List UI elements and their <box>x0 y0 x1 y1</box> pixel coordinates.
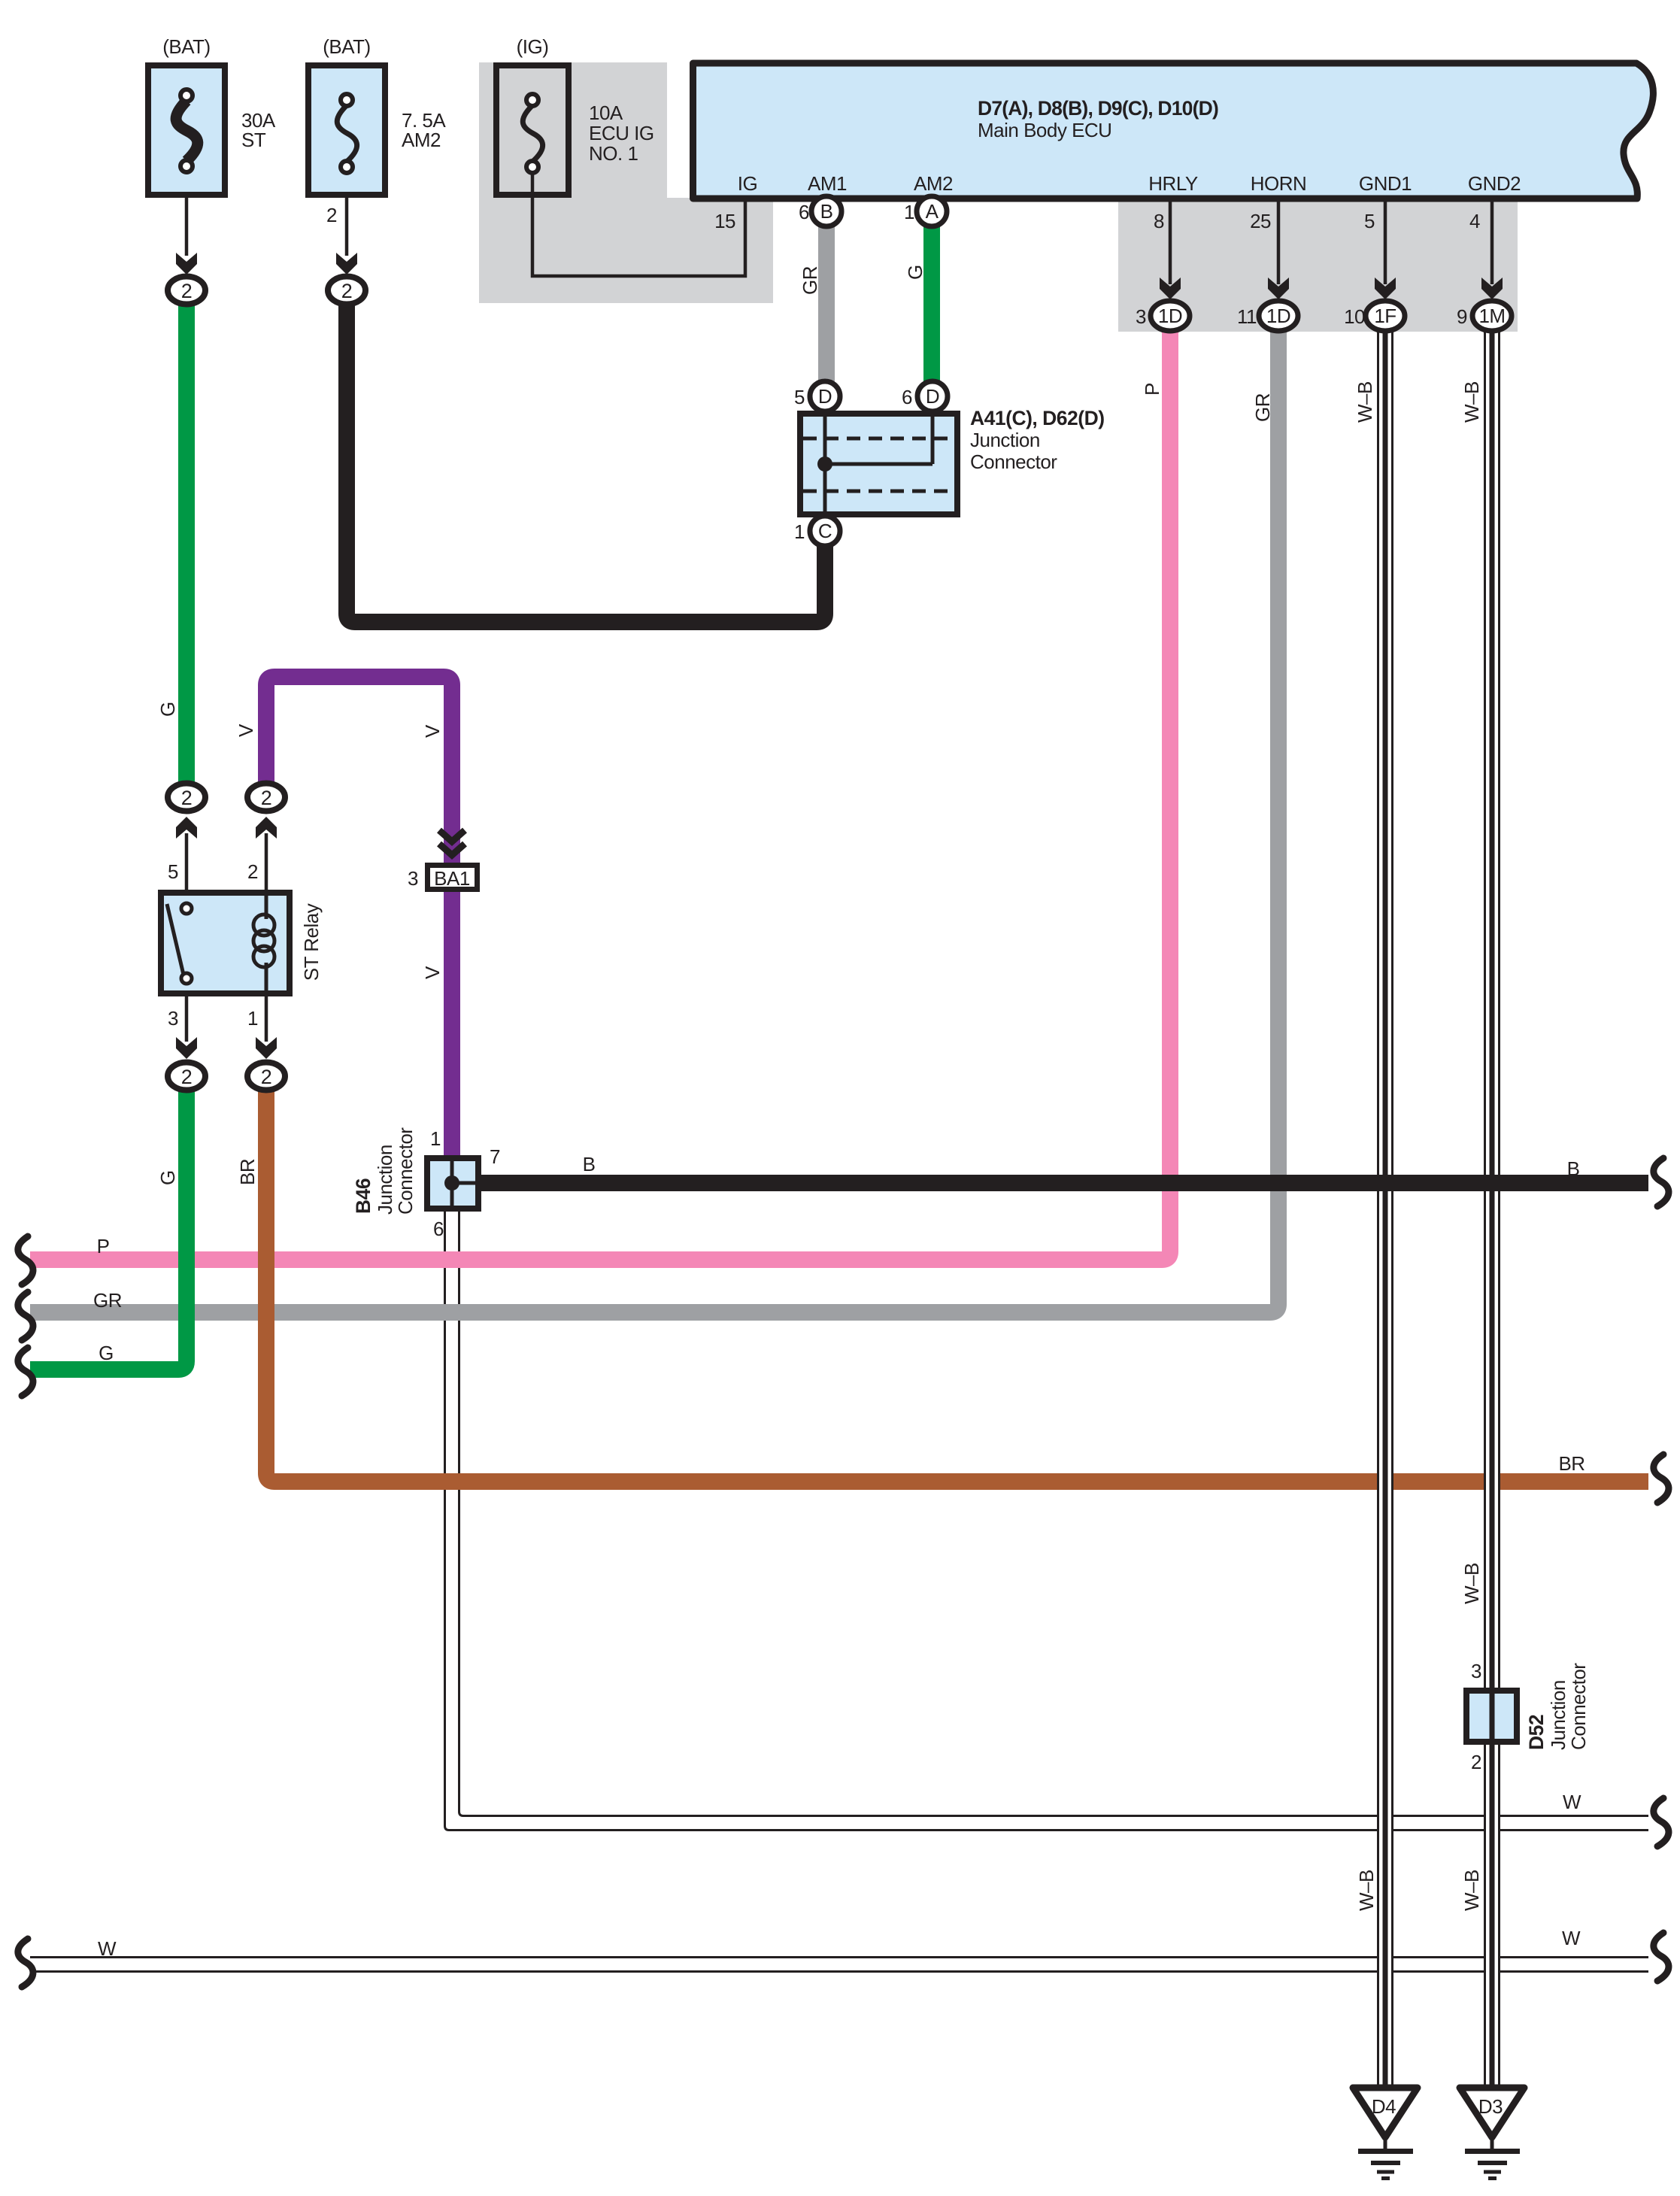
fuse 10A ECU IG NO.1 <box>496 65 569 195</box>
relay pin 2 arrow line <box>247 817 277 891</box>
label G on AM2 wire <box>904 265 926 280</box>
svg-text:GND2: GND2 <box>1468 172 1521 195</box>
grey background panel behind ECU-IG fuse <box>479 62 773 303</box>
label G left <box>99 1342 114 1364</box>
label B46 pin 1 <box>430 1127 441 1150</box>
wire B from fuse AM2 to junction connector <box>347 301 825 622</box>
svg-text:P: P <box>97 1235 110 1257</box>
label 10A ECU IG NO. 1 <box>589 102 654 165</box>
ground D4 <box>1353 2088 1418 2180</box>
label ST Relay <box>300 903 323 981</box>
connector cavity 2 above relay pin 5 <box>168 784 205 811</box>
label ECU title <box>978 97 1218 141</box>
svg-text:Connector: Connector <box>970 450 1057 473</box>
svg-text:D: D <box>818 385 832 408</box>
label (IG) <box>517 35 549 58</box>
svg-text:W–B: W–B <box>1460 1870 1483 1911</box>
grey background panel under ECU right pins <box>1118 198 1518 332</box>
svg-text:6: 6 <box>433 1218 444 1240</box>
label pin IG <box>738 172 757 195</box>
svg-text:D3: D3 <box>1478 2095 1503 2118</box>
label pin 15 <box>714 210 735 232</box>
break symbol GR left <box>18 1292 33 1340</box>
svg-text:3: 3 <box>408 867 418 890</box>
svg-text:B: B <box>1567 1157 1580 1180</box>
label B right <box>1567 1157 1580 1180</box>
svg-text:Connector: Connector <box>394 1127 417 1215</box>
svg-text:IG: IG <box>738 172 757 195</box>
junction connector B46 box <box>427 1158 478 1209</box>
wire BR from ST relay to right edge <box>266 1089 1648 1482</box>
label A41(C), D62(D) Junction Connector <box>970 407 1105 473</box>
svg-text:2: 2 <box>341 280 353 302</box>
break symbol P left <box>18 1236 33 1285</box>
wire G fuse ST to ST relay <box>178 301 195 784</box>
wire GR (HORN) <box>30 332 1278 1312</box>
wire V from BA1 to B46 <box>444 890 460 1158</box>
connector cavity 2 above relay pin 2 <box>247 784 285 811</box>
wire from fuse ECU-IG to ECU pin 15 <box>532 172 745 276</box>
svg-text:V: V <box>235 723 257 737</box>
svg-text:D: D <box>926 385 939 408</box>
svg-text:(BAT): (BAT) <box>162 35 210 58</box>
svg-text:9: 9 <box>1457 305 1467 328</box>
label V below BA1 <box>421 966 444 979</box>
pin B (AM1) on ECU <box>799 196 842 226</box>
svg-text:7: 7 <box>490 1145 500 1168</box>
svg-text:G: G <box>156 702 179 717</box>
label W right upper <box>1563 1791 1581 1813</box>
svg-text:5: 5 <box>168 860 178 883</box>
label BR below relay <box>236 1159 259 1185</box>
ground D3 <box>1460 2088 1524 2180</box>
svg-text:P: P <box>1141 383 1163 396</box>
svg-text:2: 2 <box>261 1066 272 1088</box>
svg-text:V: V <box>421 724 444 738</box>
svg-text:2: 2 <box>247 860 258 883</box>
relay pin 5 arrow line <box>168 817 197 891</box>
label (BAT) for fuse ST <box>162 35 210 58</box>
svg-text:2: 2 <box>181 1066 193 1088</box>
svg-text:C: C <box>818 520 832 542</box>
svg-text:B: B <box>583 1153 596 1175</box>
svg-text:D7(A), D8(B), D9(C), D10(D): D7(A), D8(B), D9(C), D10(D) <box>978 97 1218 120</box>
label G above relay <box>156 702 179 717</box>
wire V from ST relay oval to BA1 <box>266 677 452 865</box>
svg-text:2: 2 <box>1471 1751 1481 1773</box>
junction connector A41(C) D62(D) box <box>800 414 957 514</box>
label P left <box>97 1235 110 1257</box>
relay switch contact <box>167 903 192 984</box>
wire G from AM2 pin A to junction D <box>923 222 940 384</box>
svg-text:ECU IG: ECU IG <box>589 122 654 144</box>
svg-text:4: 4 <box>1469 210 1480 232</box>
label B46 pin 6 <box>433 1218 444 1240</box>
svg-text:(BAT): (BAT) <box>323 35 370 58</box>
label GR left <box>93 1289 122 1312</box>
svg-text:BR: BR <box>1558 1452 1584 1475</box>
svg-text:W–B: W–B <box>1354 381 1376 423</box>
wire B from B46 to right edge <box>481 1175 1648 1191</box>
pin D 5 on junction <box>794 381 840 411</box>
connector 1F (GND1) <box>1344 301 1405 331</box>
svg-text:Junction: Junction <box>1547 1680 1569 1750</box>
svg-text:W–B: W–B <box>1460 1563 1483 1604</box>
svg-text:GND1: GND1 <box>1359 172 1412 195</box>
ECU D7/D8/D9/D10 Main Body ECU box <box>693 63 1654 199</box>
label W-B on GND1 wire lower <box>1355 1870 1378 1911</box>
relay coil <box>253 893 274 993</box>
svg-text:A41(C), D62(D): A41(C), D62(D) <box>970 407 1105 429</box>
svg-text:3: 3 <box>1136 305 1146 328</box>
label pin GND1 <box>1359 172 1412 195</box>
ECU pin 5 GND1 line <box>1364 200 1396 299</box>
svg-text:W–B: W–B <box>1355 1870 1378 1911</box>
svg-text:B: B <box>820 200 833 223</box>
junction connector D52 box <box>1466 1691 1517 1742</box>
connector BA1 <box>408 866 477 890</box>
break symbol W right upper <box>1654 1798 1669 1846</box>
double arrow into BA1 <box>439 830 465 855</box>
label W-B on GND2 wire above D52 <box>1460 1563 1483 1604</box>
connector cavity 2 below fuse ST <box>168 277 205 305</box>
svg-text:2: 2 <box>326 204 337 226</box>
svg-text:D4: D4 <box>1372 2095 1396 2118</box>
break symbol B right <box>1654 1158 1669 1206</box>
break symbol G left <box>18 1348 33 1396</box>
wire GR from AM1 pin B to junction D <box>818 222 835 384</box>
svg-text:HRLY: HRLY <box>1148 172 1198 195</box>
svg-text:25: 25 <box>1250 210 1271 232</box>
ECU pin 25 HORN line <box>1250 200 1289 299</box>
svg-text:8: 8 <box>1154 210 1164 232</box>
label BR right <box>1558 1452 1584 1475</box>
label G below relay <box>156 1170 179 1185</box>
svg-text:HORN: HORN <box>1251 172 1307 195</box>
svg-text:AM2: AM2 <box>914 172 953 195</box>
svg-text:1D: 1D <box>1158 305 1182 327</box>
fuse AM2 pin 2 line and arrow <box>326 198 357 274</box>
svg-text:3: 3 <box>168 1007 178 1030</box>
label W-B on GND2 wire upper <box>1460 381 1483 423</box>
svg-text:1: 1 <box>904 201 914 223</box>
svg-text:BR: BR <box>236 1159 259 1185</box>
svg-text:2: 2 <box>261 787 272 809</box>
label W-B on GND1 wire upper <box>1354 381 1376 423</box>
svg-text:3: 3 <box>1471 1660 1481 1682</box>
label B46 Junction Connector <box>352 1127 417 1215</box>
wire P (HRLY) <box>30 332 1170 1260</box>
svg-text:AM1: AM1 <box>808 172 847 195</box>
ST relay box <box>161 893 290 993</box>
svg-text:GR: GR <box>1251 393 1274 422</box>
label 30A ST <box>241 109 276 151</box>
svg-text:Main Body ECU: Main Body ECU <box>978 119 1111 141</box>
label W-B on GND2 wire lower <box>1460 1870 1483 1911</box>
break symbol W right lower <box>1654 1933 1669 1981</box>
label pin AM1 <box>808 172 847 195</box>
svg-text:W: W <box>1562 1927 1581 1949</box>
pin A (AM2) on ECU <box>904 196 947 226</box>
label V right segment upper <box>421 724 444 738</box>
ECU pin 8 HRLY line <box>1154 200 1181 299</box>
wire W-B GND2 to ground D3 <box>1484 331 1500 2085</box>
fuse ST pin line and arrow <box>176 198 197 274</box>
connector cavity 2 below relay pin 3 <box>168 1063 205 1090</box>
svg-text:5: 5 <box>1364 210 1375 232</box>
svg-text:2: 2 <box>181 787 193 809</box>
svg-text:AM2: AM2 <box>402 129 441 151</box>
svg-text:W: W <box>1563 1791 1581 1813</box>
svg-text:GR: GR <box>93 1289 122 1312</box>
svg-text:1: 1 <box>247 1007 258 1030</box>
label GR on HORN wire <box>1251 393 1274 422</box>
label pin HRLY <box>1148 172 1198 195</box>
svg-text:1D: 1D <box>1266 305 1290 327</box>
svg-text:5: 5 <box>794 386 805 408</box>
svg-text:NO. 1: NO. 1 <box>589 142 638 165</box>
svg-text:A: A <box>926 200 939 223</box>
svg-text:V: V <box>421 966 444 979</box>
svg-text:W–B: W–B <box>1460 381 1483 423</box>
svg-text:W: W <box>98 1937 117 1960</box>
connector 1M (GND2) <box>1457 301 1512 331</box>
label 7.5A AM2 <box>402 109 446 151</box>
label pin HORN <box>1251 172 1307 195</box>
svg-text:BA1: BA1 <box>434 867 470 890</box>
svg-text:1: 1 <box>430 1127 441 1150</box>
label D52 pin 3 <box>1471 1660 1481 1682</box>
label D52 pin 2 <box>1471 1751 1481 1773</box>
svg-text:11: 11 <box>1237 305 1257 328</box>
connector cavity 2 below fuse AM2 <box>328 277 365 305</box>
label B mid <box>583 1153 596 1175</box>
wire W lower horizontal <box>30 1956 1648 1973</box>
svg-text:(IG): (IG) <box>517 35 549 58</box>
pin C 1 on junction <box>794 516 840 546</box>
label GR on AM1 wire <box>799 266 821 295</box>
svg-text:ST: ST <box>241 129 266 151</box>
svg-text:10A: 10A <box>589 102 623 124</box>
fuse 30A ST <box>148 65 225 195</box>
svg-text:10: 10 <box>1344 305 1365 328</box>
label (BAT) for fuse AM2 <box>323 35 370 58</box>
svg-text:Junction: Junction <box>970 429 1040 451</box>
svg-text:6: 6 <box>799 201 809 223</box>
svg-text:1F: 1F <box>1374 305 1396 327</box>
svg-text:1M: 1M <box>1478 305 1505 327</box>
break symbol W left <box>18 1939 33 1987</box>
label B46 pin 7 <box>490 1145 500 1168</box>
relay pin 3 line arrow <box>168 993 197 1059</box>
ECU pin 4 GND2 line <box>1469 200 1503 299</box>
svg-text:1: 1 <box>794 520 805 543</box>
svg-text:G: G <box>99 1342 114 1364</box>
wire G from ST relay to left edge <box>30 1089 186 1369</box>
pin D 6 on junction <box>902 381 948 411</box>
label D52 Junction Connector <box>1525 1663 1590 1750</box>
connector cavity 2 below relay pin 1 <box>247 1063 285 1090</box>
label pin AM2 <box>914 172 953 195</box>
label pin GND2 <box>1468 172 1521 195</box>
connector 1D (HORN) <box>1237 301 1298 331</box>
svg-text:G: G <box>904 265 926 280</box>
break symbol BR right <box>1654 1454 1669 1503</box>
fuse 7.5A AM2 <box>308 65 385 195</box>
svg-text:Connector: Connector <box>1567 1663 1590 1750</box>
svg-text:2: 2 <box>181 280 193 302</box>
svg-text:Junction: Junction <box>374 1145 396 1215</box>
svg-text:D52: D52 <box>1525 1715 1548 1750</box>
label V left segment <box>235 723 257 737</box>
svg-text:6: 6 <box>902 386 912 408</box>
relay pin 1 line arrow <box>247 993 277 1059</box>
svg-text:ST Relay: ST Relay <box>300 903 323 981</box>
label P on HRLY wire <box>1141 383 1163 396</box>
wire W from B46 junction to right edge <box>444 1209 1648 1831</box>
label W right lower <box>1562 1927 1581 1949</box>
svg-text:G: G <box>156 1170 179 1185</box>
svg-text:15: 15 <box>714 210 735 232</box>
connector 1D (HRLY) <box>1136 301 1190 331</box>
wire W-B GND1 to ground D4 <box>1377 331 1393 2085</box>
svg-text:B46: B46 <box>352 1178 375 1214</box>
label W left <box>98 1937 117 1960</box>
svg-text:GR: GR <box>799 266 821 295</box>
